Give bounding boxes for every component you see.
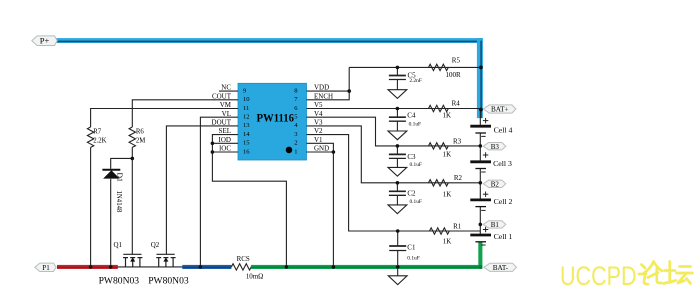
svg-text:V5: V5 <box>314 101 323 109</box>
resistor R3 1K <box>429 143 449 149</box>
wire IOD pin15 tie <box>212 142 238 144</box>
svg-text:VL: VL <box>222 110 231 118</box>
node GND on green rail <box>332 265 336 269</box>
svg-text:BAT+: BAT+ <box>491 106 509 114</box>
svg-text:GND: GND <box>314 145 329 153</box>
wire green thick BAT- segment <box>251 265 482 269</box>
glyph tan (CJK) <box>664 262 693 284</box>
svg-text:10mΩ: 10mΩ <box>246 272 264 280</box>
minus mark cell3 <box>481 171 485 173</box>
svg-text:16: 16 <box>243 148 250 155</box>
plus mark cell4 <box>483 118 488 123</box>
node R6/D1/Q1 tie <box>131 157 135 161</box>
svg-text:1K: 1K <box>443 151 452 159</box>
wire C4 stem <box>396 109 398 118</box>
wire R5 row <box>349 66 480 68</box>
node P1 port tag <box>35 263 56 272</box>
node B2 port tag <box>483 180 506 188</box>
svg-text:Cell 3: Cell 3 <box>493 159 512 168</box>
plus mark cell3 <box>483 152 488 157</box>
node VL on blue rail <box>199 265 203 269</box>
all thin wires <box>57 67 480 275</box>
svg-text:PW80N03: PW80N03 <box>148 276 189 287</box>
node BAT+ port tag <box>483 105 516 114</box>
node D1 on red rail <box>109 265 113 269</box>
wire VM pin11 to R7 top <box>91 109 238 128</box>
svg-text:100R: 100R <box>446 71 462 79</box>
transistor Q1 PW80N03 <box>123 254 142 267</box>
wire D1 bottom to red rail <box>110 179 112 267</box>
svg-text:11: 11 <box>243 105 249 112</box>
wire battery stack segments <box>479 109 481 125</box>
svg-text:Cell 1: Cell 1 <box>494 232 513 241</box>
battery Cell 3 <box>470 162 491 169</box>
wire blue thick segment <box>182 265 231 269</box>
node B1 port tag <box>483 221 506 229</box>
svg-text:13: 13 <box>243 122 250 129</box>
wire P+ thick cyan vertical down to BAT+ <box>477 38 483 118</box>
svg-text:12: 12 <box>243 114 250 121</box>
node C5 top <box>396 66 400 70</box>
node BAT- port tag <box>484 263 517 272</box>
resistor R4 1K <box>429 105 449 111</box>
svg-text:Q2: Q2 <box>151 241 160 249</box>
resistor R2 1K <box>429 180 449 186</box>
node P+ port tag <box>32 36 57 46</box>
resistor R7 2.2K vertical <box>87 127 93 147</box>
wire R6 bottom to D1 and Q1 gate <box>111 147 133 254</box>
svg-text:BAT-: BAT- <box>493 264 509 272</box>
svg-text:VDD: VDD <box>314 84 329 92</box>
wire VDD pin8 to tie point <box>307 67 350 91</box>
wire ENCH pin7 jog up to VDD tie <box>307 91 350 100</box>
svg-text:P1: P1 <box>42 264 50 272</box>
svg-text:DOUT: DOUT <box>212 119 232 127</box>
wire NC stub pin9 <box>219 90 238 92</box>
plus mark cell2 <box>483 192 488 197</box>
wire C1 below green to ground <box>397 267 399 276</box>
svg-text:R6: R6 <box>136 129 145 136</box>
wire SEL pin14 tie <box>212 135 286 267</box>
wire P+ thick cyan horizontal <box>56 38 483 43</box>
node IOD tie <box>211 142 215 146</box>
svg-text:IOD: IOD <box>219 136 231 144</box>
svg-text:ENCH: ENCH <box>314 92 333 100</box>
svg-text:R2: R2 <box>454 174 463 182</box>
minus mark cell4 <box>481 135 485 137</box>
battery Cell 1 <box>470 235 491 242</box>
svg-text:1K: 1K <box>443 190 452 198</box>
capacitor C1 0.1uF <box>389 246 406 251</box>
svg-text:0.1uF: 0.1uF <box>410 199 422 205</box>
svg-text:B3: B3 <box>491 143 500 151</box>
svg-text:1K: 1K <box>443 111 452 119</box>
ground symbol below C5 <box>388 90 407 99</box>
diode D1 1N4148 <box>102 170 120 179</box>
svg-text:Cell 4: Cell 4 <box>494 126 513 135</box>
svg-text:14: 14 <box>243 131 250 138</box>
resistor RCS 10mOhm <box>231 264 251 270</box>
svg-text:R3: R3 <box>453 137 462 145</box>
wire V2 pin3 to R1 row <box>307 135 481 231</box>
svg-text:PW1116: PW1116 <box>257 112 295 124</box>
node C1 top <box>396 229 400 233</box>
wire IOC pin16 tie <box>212 151 238 153</box>
minus mark cell2 <box>481 209 485 211</box>
plus mark cell1 <box>483 227 488 232</box>
svg-text:R5: R5 <box>452 57 461 65</box>
capacitor C2 0.1uF <box>389 191 406 195</box>
svg-text:0.1uF: 0.1uF <box>409 122 421 128</box>
svg-text:PW80N03: PW80N03 <box>99 276 140 287</box>
svg-text:V4: V4 <box>314 110 323 118</box>
svg-text:NC: NC <box>221 84 231 92</box>
svg-text:SEL: SEL <box>219 127 231 135</box>
node C3 top <box>396 144 400 148</box>
node B2 junction <box>479 181 483 185</box>
battery Cell 4 <box>470 126 491 133</box>
svg-text:C3: C3 <box>407 153 416 161</box>
resistor R1 1K <box>430 228 450 234</box>
wire C2 stem <box>396 183 398 192</box>
svg-text:Cell 2: Cell 2 <box>494 197 513 206</box>
svg-text:10: 10 <box>243 96 250 103</box>
pin-1 marker dot <box>286 147 293 154</box>
node SEL tie on green rail <box>285 265 289 269</box>
pin name labels right side <box>314 84 333 153</box>
watermark UCCPD forum <box>560 261 693 290</box>
wire V1 pin2 to GND tie <box>307 143 334 152</box>
svg-text:VM: VM <box>220 101 232 109</box>
pin numbers right 8-1 <box>294 87 298 155</box>
resistor R6 2M vertical <box>129 127 135 147</box>
glyph lun (CJK) <box>639 262 662 285</box>
svg-text:2M: 2M <box>136 138 145 145</box>
wire VL pin12 down to blue rail <box>200 117 238 267</box>
battery Cell 2 <box>470 200 491 207</box>
ground symbol below C3 <box>388 167 407 176</box>
node IOC tie <box>211 150 215 154</box>
ground symbol below C2 <box>388 205 407 214</box>
svg-text:IOC: IOC <box>219 145 231 153</box>
node C1 on green rail <box>396 265 400 269</box>
wire C1 stem <box>397 231 399 246</box>
svg-text:Q1: Q1 <box>114 241 123 249</box>
node V1/GND tie <box>332 150 336 154</box>
IC U1 PW1116 body <box>238 83 307 160</box>
svg-text:D1: D1 <box>116 173 125 182</box>
pin numbers left 9-16 <box>243 87 250 155</box>
resistor R5 100R <box>429 64 449 70</box>
wire C5 stem <box>396 67 398 75</box>
wire R7 bottom to red rail <box>90 147 92 267</box>
svg-text:0.1uF: 0.1uF <box>407 255 419 261</box>
svg-text:1N4148: 1N4148 <box>115 191 122 214</box>
capacitor C4 0.1uF <box>389 117 406 121</box>
wire green thick vertical below Cell 1 <box>478 242 482 267</box>
svg-text:2.2nF: 2.2nF <box>409 78 421 84</box>
wire V3 pin4 to R2 row <box>307 126 481 183</box>
node B3 port tag <box>483 143 506 151</box>
svg-text:2: 2 <box>294 140 297 147</box>
transistor Q2 PW80N03 <box>156 254 175 267</box>
svg-text:R1: R1 <box>453 222 462 230</box>
svg-text:R7: R7 <box>93 129 102 136</box>
svg-text:RCS: RCS <box>237 255 250 263</box>
node C2 top <box>396 181 400 185</box>
pin name labels left side <box>212 84 232 153</box>
node VDD/ENCH tie <box>347 89 351 93</box>
node B1 junction <box>479 223 483 227</box>
svg-text:R4: R4 <box>452 99 461 107</box>
svg-text:C2: C2 <box>407 190 416 198</box>
node C4 top <box>396 107 400 111</box>
minus mark cell1 <box>481 244 485 246</box>
node R5/cyan <box>479 66 483 70</box>
wire red thick P1 segment <box>57 265 118 269</box>
svg-text:B2: B2 <box>491 180 500 188</box>
svg-text:15: 15 <box>243 140 250 147</box>
svg-text:B1: B1 <box>491 221 500 229</box>
svg-text:V2: V2 <box>314 127 323 135</box>
node green corner <box>479 265 483 269</box>
svg-text:UCCPD: UCCPD <box>560 261 637 290</box>
wire V4 pin5 to R3 row <box>307 117 481 146</box>
svg-text:C4: C4 <box>407 112 416 120</box>
wire bottom rail thin under FETs <box>57 266 231 268</box>
svg-text:C1: C1 <box>407 244 416 252</box>
svg-text:1K: 1K <box>443 237 452 245</box>
node R7 on red rail <box>89 265 93 269</box>
svg-text:0.1uF: 0.1uF <box>410 162 422 168</box>
node B3 junction <box>479 144 483 148</box>
ground symbol below C4 <box>388 131 407 140</box>
svg-text:COUT: COUT <box>212 92 232 100</box>
svg-text:2.2K: 2.2K <box>93 138 106 145</box>
capacitor C5 2.2nF <box>389 76 406 80</box>
wire GND pin1 down to green rail <box>307 152 334 267</box>
svg-text:P+: P+ <box>40 36 50 46</box>
ground symbol below C1 (below green rail) <box>388 276 407 285</box>
wire COUT pin10 to R6 top <box>132 100 238 127</box>
node BAT+ junction <box>479 108 483 112</box>
svg-text:V3: V3 <box>314 119 323 127</box>
svg-text:1: 1 <box>294 148 297 155</box>
capacitor C3 0.1uF <box>389 154 406 158</box>
wire C3 stem <box>396 146 398 155</box>
wire V5 pin6 to BAT+ (R4 row) <box>307 108 481 110</box>
svg-text:V1: V1 <box>314 136 323 144</box>
wire DOUT pin13 to Q2 gate <box>166 126 238 254</box>
